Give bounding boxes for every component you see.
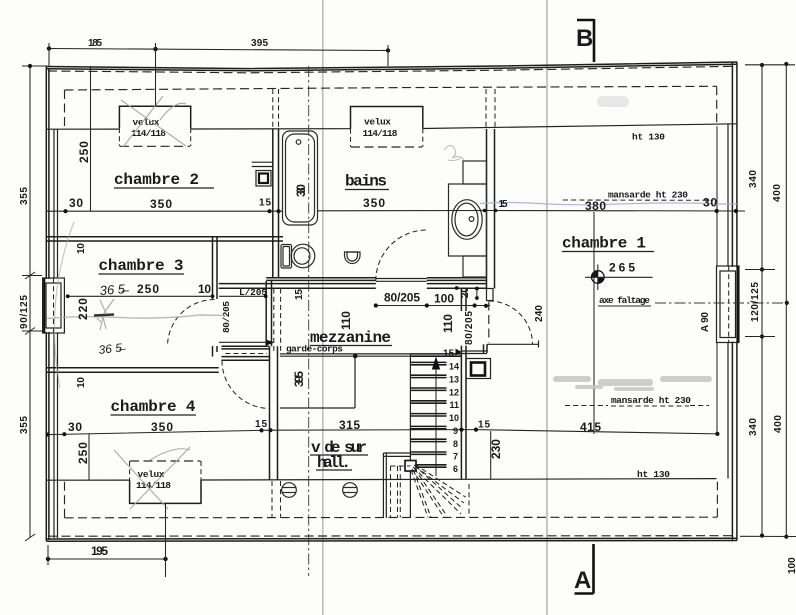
bains dim 350/15 [318,196,487,211]
outer wall right [732,62,737,541]
svg-text:90/125: 90/125 [19,295,30,329]
corridor door dashes [225,353,267,355]
svg-text:240: 240 [534,305,545,322]
svg-text:340: 340 [748,418,759,436]
door chambre1 closed leaf dashed [488,302,490,343]
gray smudge chambre1 lower [553,376,712,391]
svg-text:350: 350 [150,197,172,211]
svg-text:250: 250 [77,141,91,163]
svg-text:14: 14 [449,362,459,372]
svg-text:80/205: 80/205 [464,311,475,345]
svg-text:15: 15 [255,419,267,430]
svg-text:340: 340 [748,170,759,188]
left wall inner lining lines [54,129,58,538]
svg-text:315: 315 [339,418,360,432]
svg-text:axe faltage: axe faltage [599,295,650,306]
svg-text:10: 10 [198,282,211,296]
svg-text:100: 100 [434,292,454,306]
svg-text:230: 230 [489,439,503,459]
bottom dim 195 [46,504,168,578]
svg-text:36 5̶: 36 5̶ [99,281,129,298]
pencil big arc left [54,222,74,388]
svg-text:10: 10 [76,243,87,254]
svg-text:355: 355 [19,187,30,205]
dash line inside top wall [48,66,735,73]
winder dashed rays [411,465,466,518]
svg-text:415: 415 [580,420,601,434]
svg-text:chambre 2: chambre 2 [114,171,199,189]
winder newel post [405,461,416,472]
room label bains [345,173,389,191]
svg-text:13: 13 [449,375,459,385]
svg-text:110: 110 [441,314,455,333]
mezzanine floor edge L [280,356,355,408]
scan fold line right [546,0,548,615]
svg-text:12: 12 [449,388,459,398]
svg-text:220: 220 [76,298,90,320]
wall chambre2 / bains [273,89,279,278]
room label chambre 3 [99,257,185,275]
mansarde dashed corner right-top [716,86,718,126]
corridor door 205 dim [219,295,266,297]
hall dashed garde-corps below stairs [383,453,469,518]
right inner dim line 340/120/340 [745,63,775,538]
svg-text:380: 380 [585,199,606,213]
svg-text:velux: velux [133,117,160,128]
ht130 line bottom [46,479,716,481]
svg-text:395: 395 [251,38,268,49]
staircase [410,349,461,519]
svg-text:velux: velux [138,469,165,480]
stair top landing edge [461,351,487,354]
svg-text:350: 350 [363,196,385,210]
svg-text:9: 9 [453,426,458,436]
section marker B [576,19,594,62]
velux chambre 2 [119,106,190,146]
left dim line [19,64,47,541]
svg-text:20: 20 [460,287,471,298]
svg-text:8: 8 [453,439,458,449]
svg-text:15: 15 [259,198,271,209]
chambre4 door dim line [219,341,266,343]
svg-text:265: 265 [609,261,635,275]
bathtub [283,131,318,225]
svg-text:100: 100 [787,557,796,574]
mansarde dashed corner left-top [64,90,66,129]
door bains arc [376,230,427,281]
outer wall bottom [46,538,737,541]
svg-text:114/118: 114/118 [136,480,171,491]
pencil cross velux 2 [121,96,186,147]
knee wall line right [716,126,718,266]
room label chambre 4 [111,398,197,416]
pencil scribble bains [444,145,464,160]
pencil wavy line chambre3 [47,315,225,319]
svg-text:chambre 1: chambre 1 [562,235,646,253]
velux chambre 4 [114,447,201,509]
door bains leaf [376,279,427,282]
svg-text:15: 15 [443,349,455,360]
stair left edge [409,354,411,518]
room label chambre 1 [562,235,654,253]
svg-text:114/118: 114/118 [363,128,398,139]
svg-text:ht 130: ht 130 [632,132,665,143]
svg-text:B: B [576,25,593,52]
svg-text:15: 15 [478,420,490,431]
svg-text:395: 395 [292,371,306,387]
svg-text:7: 7 [453,452,458,462]
hall oval fixture right [343,483,358,498]
wall chambre3 / chambre4 [46,368,218,373]
duct square chambre2 [252,162,273,186]
svg-text:L/205: L/205 [239,287,267,298]
svg-text:250: 250 [76,442,90,464]
svg-text:bains: bains [345,173,387,191]
pencil plant sketch chambre3 [94,299,114,330]
svg-text:36 5̶: 36 5̶ [98,340,127,357]
garde-corps railing [280,354,411,356]
svg-text:120/125: 120/125 [750,282,761,322]
svg-text:30: 30 [703,196,717,210]
bains bottom wall east part [427,278,487,289]
vanity washbasin [449,161,487,277]
svg-text:11: 11 [449,400,459,410]
svg-text:400: 400 [772,184,783,202]
svg-text:80/205: 80/205 [384,291,420,305]
svg-text:30: 30 [69,196,83,210]
svg-text:15: 15 [294,289,305,300]
main lower dim line 30/350/15/315/15/415 [46,418,720,437]
chambre4 dim 250 [76,434,90,480]
svg-text:10: 10 [449,413,459,423]
wall chambre3 / corridor [213,237,218,357]
treads [410,354,461,467]
svg-text:195: 195 [91,544,108,558]
svg-text:15: 15 [499,199,508,210]
pencil cross velux 4 [114,450,168,509]
toilet [281,244,315,268]
dash line inside bottom wall [48,535,735,538]
room label mezzanine [310,329,392,347]
svg-text:80/205: 80/205 [221,301,232,333]
label vide sur hall [310,439,368,472]
window west 90/125 [44,279,51,332]
svg-text:mansarde ht 230: mansarde ht 230 [608,190,688,201]
blue wavy line [480,203,737,205]
door chambre1 swing arc [489,301,533,344]
wall bains / chambre1 [486,89,495,289]
svg-text:ht 130: ht 130 [637,469,670,480]
svg-text:A 90: A 90 [700,312,711,332]
window east 120/125 [729,267,739,342]
chambre3 dim 250/10 [66,282,215,298]
svg-text:350: 350 [151,420,173,434]
corridor bottom wall / chambre4 top right [221,346,269,360]
chambre4 door arc [222,361,270,409]
mansarde dashed boundary top [65,86,717,90]
axe faitage dash-dot line [655,302,790,304]
walk line with up arrow [435,358,437,476]
chambre4 door arrow [267,340,275,346]
wall corridor / chambre1 at stairs [461,289,466,480]
gray smudge top right [597,96,629,107]
svg-text:185: 185 [88,38,102,49]
tub axis [308,66,310,576]
ht130 line top [46,124,737,129]
svg-text:110: 110 [339,311,353,330]
mansarde dashed boundary bottom [65,481,718,518]
scan fold line left [322,0,324,615]
label mansarde ht 230 top [563,190,713,201]
room label chambre 2 [114,171,214,189]
svg-text:mansarde ht 230: mansarde ht 230 [611,395,691,406]
door chambre1 jamb top [487,289,494,301]
label axe faltage [598,295,651,306]
wall chambre2 / chambre3 [46,237,283,241]
mezzanine garde-corps dashed edge [274,289,281,353]
svg-text:330: 330 [294,184,308,197]
svg-text:velux: velux [364,117,391,128]
svg-text:355: 355 [19,416,30,434]
bidet [345,252,361,264]
dim ticks near door 20 [455,286,479,300]
svg-text:A: A [574,567,591,594]
duct next to stairs [466,359,491,379]
svg-text:chambre 4: chambre 4 [111,398,196,416]
hall oval fixture left [282,483,297,498]
door chambre1 jamb bottom [484,344,488,353]
svg-text:garde-corps: garde-corps [286,344,343,355]
section marker A [574,544,594,594]
step numbers [449,362,459,475]
svg-text:10: 10 [76,377,87,388]
dim 80/205 100 20 corridor [374,287,490,308]
svg-text:400: 400 [773,415,784,433]
line under 265 [585,276,653,278]
chambre1 dim 15/380/30 [483,196,745,214]
node railing junction [353,354,358,359]
right outer dim line 400/400 [740,62,796,539]
door chambre1 open leaf [487,341,539,348]
svg-text:6: 6 [453,464,458,474]
dim line 230 extension [490,431,492,480]
svg-text:chambre 3: chambre 3 [99,257,184,275]
datum circle chambre1 [592,265,605,291]
label mansarde ht 230 bottom [565,395,709,406]
svg-text:250: 250 [137,282,159,296]
velux bains [351,107,423,148]
chambre1 axis vertical [593,212,595,434]
chambre2 dim line 30/350/15 [47,196,284,213]
chambre3 door arc [168,300,215,347]
top dim line [47,38,390,106]
outer wall left [46,67,49,542]
chambre2 dim 250 [77,66,91,211]
bains bottom wall west part [219,278,376,289]
outer wall top [46,62,737,71]
right wall inner lining [727,125,729,479]
svg-text:hall.: hall. [317,454,351,472]
wall WC niche left vertical [266,281,271,346]
wall chambre4 / hall [270,346,278,480]
svg-text:30: 30 [68,420,82,434]
